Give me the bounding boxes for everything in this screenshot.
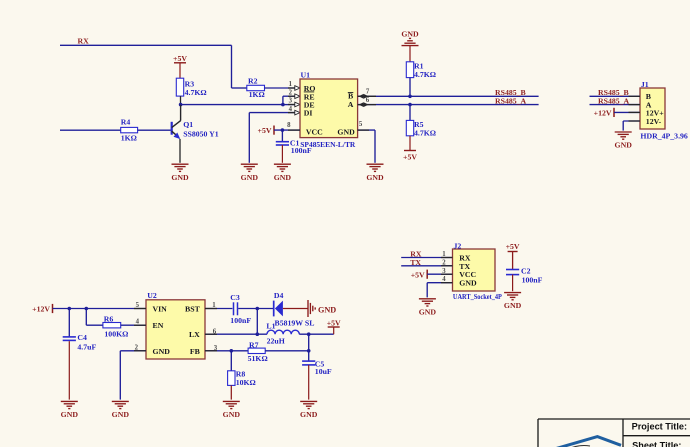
svg-text:GND: GND — [401, 29, 419, 38]
svg-text:3: 3 — [289, 98, 293, 105]
svg-text:RS485_A: RS485_A — [495, 97, 527, 106]
svg-text:C2: C2 — [521, 267, 531, 276]
svg-text:C3: C3 — [230, 293, 240, 302]
svg-text:RX: RX — [78, 37, 90, 46]
svg-text:C4: C4 — [77, 333, 87, 342]
svg-text:100nF: 100nF — [230, 316, 251, 325]
svg-text:RS485_A: RS485_A — [598, 97, 630, 106]
svg-text:TX: TX — [410, 258, 421, 267]
svg-text:+5V: +5V — [506, 242, 520, 251]
svg-text:GND: GND — [223, 410, 241, 419]
svg-text:GND: GND — [615, 141, 633, 150]
svg-text:L1: L1 — [266, 322, 275, 331]
svg-text:Sheet Title:: Sheet Title: — [632, 441, 681, 447]
svg-text:+5V: +5V — [403, 153, 417, 162]
svg-text:+12V: +12V — [594, 109, 612, 118]
svg-text:GND: GND — [171, 173, 189, 182]
svg-text:U2: U2 — [147, 291, 157, 300]
svg-text:Q1: Q1 — [183, 120, 193, 129]
svg-text:B5819W SL: B5819W SL — [275, 318, 315, 327]
svg-text:FB: FB — [190, 347, 200, 356]
svg-text:4.7KΩ: 4.7KΩ — [414, 70, 436, 79]
svg-text:DI: DI — [304, 109, 313, 118]
svg-text:1KΩ: 1KΩ — [249, 90, 265, 99]
svg-text:100KΩ: 100KΩ — [104, 330, 128, 339]
svg-text:GND: GND — [366, 173, 384, 182]
svg-text:+5V: +5V — [411, 270, 425, 279]
svg-text:BST: BST — [185, 305, 201, 314]
svg-text:4.7KΩ: 4.7KΩ — [414, 128, 436, 137]
svg-text:4: 4 — [136, 319, 140, 326]
svg-text:D4: D4 — [274, 291, 284, 300]
svg-text:5: 5 — [359, 121, 363, 128]
svg-text:GND: GND — [61, 410, 79, 419]
svg-text:+5V: +5V — [173, 54, 187, 63]
svg-text:7: 7 — [366, 89, 370, 96]
svg-text:GND: GND — [153, 347, 171, 356]
svg-text:R2: R2 — [248, 76, 258, 85]
svg-text:2: 2 — [289, 89, 293, 96]
svg-text:Project Title:: Project Title: — [632, 422, 687, 432]
svg-text:+5V: +5V — [327, 318, 341, 327]
svg-text:GND: GND — [318, 306, 336, 315]
svg-text:SS8050 Y1: SS8050 Y1 — [183, 129, 219, 138]
svg-text:1: 1 — [289, 81, 293, 88]
svg-text:GND: GND — [300, 410, 318, 419]
svg-text:51KΩ: 51KΩ — [248, 354, 268, 363]
svg-text:U1: U1 — [301, 70, 311, 79]
svg-text:GND: GND — [337, 128, 355, 137]
svg-text:8: 8 — [287, 122, 291, 129]
svg-text:GND: GND — [274, 173, 292, 182]
svg-text:4.7KΩ: 4.7KΩ — [185, 88, 207, 97]
svg-text:22uH: 22uH — [267, 337, 285, 346]
svg-text:GND: GND — [419, 307, 437, 316]
svg-text:VIN: VIN — [153, 305, 168, 314]
svg-text:1KΩ: 1KΩ — [121, 134, 137, 143]
svg-text:GND: GND — [241, 173, 259, 182]
svg-text:100nF: 100nF — [291, 146, 312, 155]
svg-text:R4: R4 — [121, 118, 131, 127]
svg-text:EN: EN — [153, 321, 164, 330]
svg-text:4.7uF: 4.7uF — [77, 343, 96, 352]
svg-text:R6: R6 — [104, 314, 114, 323]
svg-text:100nF: 100nF — [522, 275, 543, 284]
svg-text:J1: J1 — [641, 80, 649, 89]
svg-text:GND: GND — [112, 410, 130, 419]
svg-text:6: 6 — [366, 97, 370, 104]
svg-text:4: 4 — [289, 106, 293, 113]
svg-text:A: A — [348, 100, 354, 109]
svg-text:LX: LX — [189, 330, 200, 339]
svg-text:J2: J2 — [454, 241, 462, 250]
svg-text:+12V: +12V — [32, 305, 50, 314]
svg-text:GND: GND — [504, 301, 522, 310]
svg-text:UART_Socket_4P: UART_Socket_4P — [453, 294, 503, 301]
svg-text:+5V: +5V — [258, 126, 272, 135]
svg-text:HDR_4P_3.96: HDR_4P_3.96 — [640, 132, 688, 141]
svg-text:R7: R7 — [249, 340, 259, 349]
svg-text:12V-: 12V- — [646, 117, 662, 126]
svg-text:VCC: VCC — [306, 128, 323, 137]
svg-text:10uF: 10uF — [315, 367, 332, 376]
svg-text:10KΩ: 10KΩ — [236, 378, 256, 387]
svg-text:GND: GND — [459, 279, 477, 288]
